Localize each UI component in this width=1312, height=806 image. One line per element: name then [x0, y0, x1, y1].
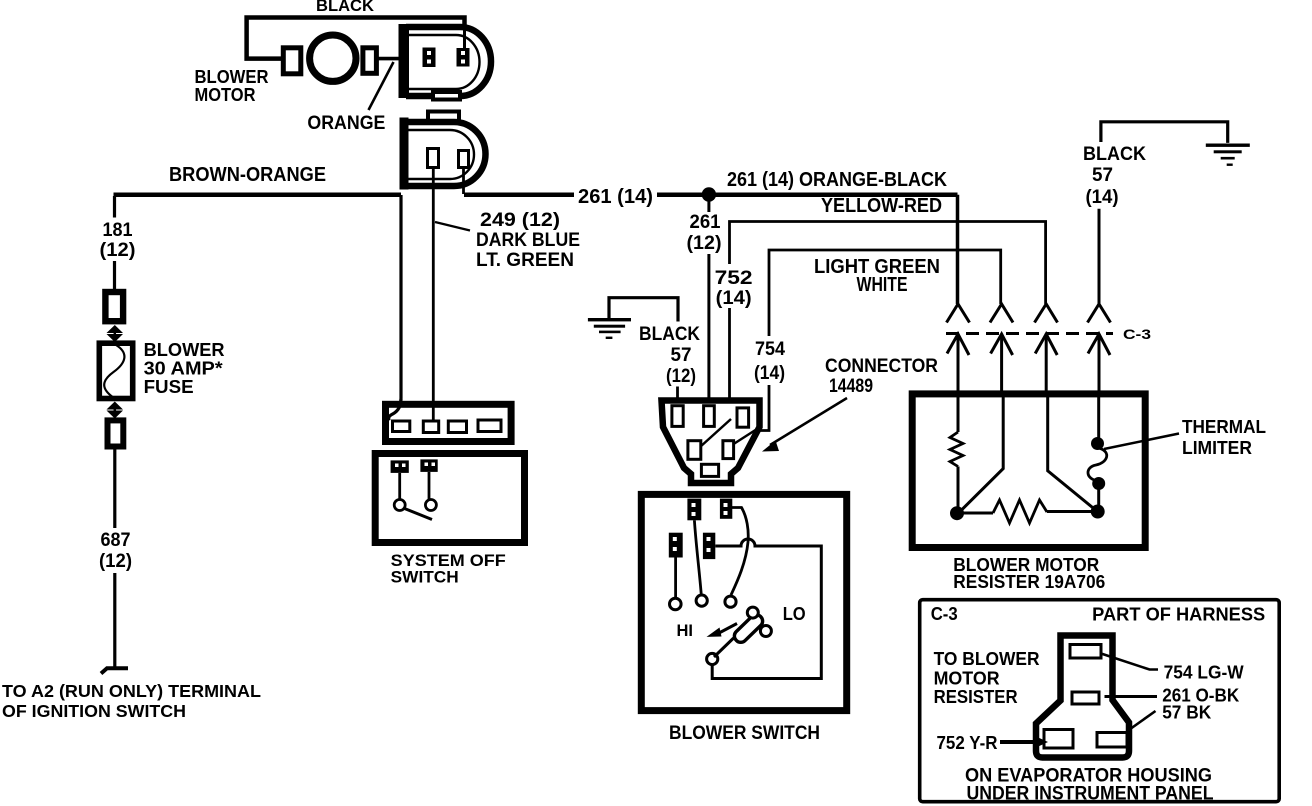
contact circle right [425, 500, 436, 511]
pointer 754 LG-W [1101, 654, 1158, 670]
connector face flask outline [1036, 636, 1129, 758]
C-3 male arrow 3 [1035, 334, 1057, 395]
svg-text:261 (14): 261 (14) [578, 186, 653, 208]
wiper circle top [747, 607, 758, 618]
wire 57 (14) down to C-3 [1098, 209, 1101, 304]
LO contact circle 4 [707, 653, 718, 664]
strip slot 3 [448, 421, 466, 433]
wire 261 main to right [657, 192, 958, 197]
wire orange-black down to C-3 [956, 195, 960, 304]
svg-text:57 BK: 57 BK [1162, 703, 1211, 723]
contact circle left [394, 500, 405, 511]
svg-text:LO: LO [783, 604, 806, 624]
svg-text:BLOWER: BLOWER [144, 340, 225, 360]
wire brown-orange drop to system off switch [389, 195, 401, 421]
svg-text:OF IGNITION SWITCH: OF IGNITION SWITCH [2, 701, 186, 721]
wiper bar [732, 612, 765, 645]
internal wire 14489 a [700, 419, 731, 447]
svg-text:(14): (14) [1086, 187, 1119, 208]
svg-text:THERMAL: THERMAL [1182, 417, 1266, 437]
svg-text:BLACK: BLACK [316, 0, 375, 15]
plug arrow top of fuse [107, 325, 124, 333]
blower switch terminal 1 [687, 499, 701, 521]
svg-text:C-3: C-3 [931, 604, 958, 624]
resistor element horizontal [957, 512, 993, 515]
pointer 752 Y-R arrow [1000, 740, 1038, 744]
wire 687 lower to ignition [113, 573, 116, 668]
svg-text:HI: HI [677, 621, 694, 640]
junction dot left [950, 506, 964, 520]
wire LO loop [712, 539, 821, 679]
svg-text:BLOWER: BLOWER [195, 67, 269, 87]
svg-text:BROWN-ORANGE: BROWN-ORANGE [169, 164, 326, 186]
pin 2 of C1 [457, 48, 470, 67]
wire motor to connector orange [376, 57, 428, 61]
wire t1 to contact 2 [694, 520, 701, 595]
wire thermal limiter leg 4 [1097, 394, 1100, 438]
wire C2 pin2 stub [462, 168, 465, 195]
HI contact circle [670, 598, 682, 610]
wire black 57 (14) to ground [1101, 122, 1228, 143]
svg-text:752: 752 [715, 268, 753, 289]
svg-text:(12): (12) [99, 551, 132, 572]
wire 249 into slot2 [432, 405, 435, 422]
internal wire 14489 b [734, 429, 757, 444]
svg-text:BLACK: BLACK [1083, 144, 1146, 165]
wiper arrow to HI [719, 624, 737, 634]
C-3 male arrow 2 [991, 334, 1013, 395]
svg-text:BLOWER SWITCH: BLOWER SWITCH [669, 723, 820, 744]
wire t1 to contact [398, 473, 401, 500]
C-3 interface female chevron 4 [1088, 304, 1111, 323]
connector C2 [428, 112, 459, 122]
wire 754 into connector [757, 385, 769, 431]
wire resistor leg 3 [1048, 394, 1095, 510]
pointer 261 O-BK [1105, 695, 1158, 698]
svg-text:30 AMP*: 30 AMP* [144, 359, 223, 379]
svg-text:C-3: C-3 [1123, 326, 1151, 342]
svg-text:687: 687 [101, 530, 131, 551]
connector C1 blower motor connector [406, 27, 491, 96]
flask slot top [1070, 645, 1101, 659]
pin 2 of C2 [459, 151, 469, 168]
wire 249 from C2 pin1 down [432, 168, 435, 422]
resistor element vertical [950, 432, 963, 467]
pin 1 of C2 [428, 149, 439, 168]
wire 261 (12) down to connector [707, 254, 710, 407]
wire 752 yellow-red [730, 222, 1046, 305]
svg-text:181: 181 [103, 220, 133, 241]
svg-text:SYSTEM OFF: SYSTEM OFF [391, 552, 506, 570]
inline connector below fuse [108, 420, 124, 446]
14489 pin mid 1 [688, 441, 701, 460]
C-3 male arrow 1 [947, 334, 969, 395]
junction dot right [1091, 505, 1105, 519]
flask slot middle [1072, 692, 1099, 704]
C-3 interface female chevron 1 [947, 304, 970, 323]
wiper circle side [760, 626, 771, 637]
C-3 male arrow 4 [1088, 334, 1110, 395]
svg-text:261: 261 [690, 212, 721, 233]
ground symbol G2 [1206, 144, 1250, 166]
svg-text:FUSE: FUSE [144, 377, 194, 397]
thermal limiter dot bottom [1092, 477, 1105, 490]
wire 261 (12) stub below junction [707, 198, 710, 212]
pointer connector 14489 [770, 398, 847, 445]
flask slot bottom right [1097, 733, 1127, 748]
svg-text:TO A2 (RUN ONLY) TERMINAL: TO A2 (RUN ONLY) TERMINAL [2, 681, 261, 701]
blower motor M1 [310, 35, 356, 81]
svg-text:(12): (12) [666, 366, 696, 387]
svg-text:MOTOR: MOTOR [934, 669, 1000, 689]
switch terminal 1 [391, 460, 409, 473]
C-3 interface female chevron 2 [990, 304, 1013, 323]
pointer 57 BK [1130, 711, 1156, 730]
svg-text:UNDER INSTRUMENT PANEL: UNDER INSTRUMENT PANEL [967, 784, 1214, 805]
pointer 249 [435, 222, 470, 231]
blower switch terminal 4 [703, 533, 715, 559]
blower motor resistor box [912, 394, 1145, 548]
svg-text:RESISTER: RESISTER [934, 687, 1018, 707]
blower switch terminal 2 [720, 499, 732, 519]
wire brown-orange main feed [114, 192, 402, 197]
svg-text:RESISTER 19A706: RESISTER 19A706 [953, 572, 1105, 592]
wire 181 upper [113, 196, 116, 218]
14489 pin top 3 [737, 408, 749, 427]
switch terminal 2 [420, 459, 437, 472]
svg-text:14489: 14489 [829, 376, 873, 397]
svg-text:261 (14) ORANGE-BLACK: 261 (14) ORANGE-BLACK [727, 169, 947, 191]
terminal hook A2 [101, 668, 128, 673]
pin 1 of C1 [423, 48, 436, 68]
strip slot 4 [478, 420, 501, 432]
strip slot 1 [393, 421, 410, 432]
svg-text:(12): (12) [100, 240, 136, 261]
thermal limiter element [1088, 448, 1107, 481]
svg-text:BLACK: BLACK [639, 324, 700, 345]
switch blade [405, 509, 433, 520]
plug arrow bottom of fuse [107, 402, 124, 410]
wire t2 to contact [428, 472, 431, 500]
svg-text:57: 57 [1092, 165, 1113, 186]
fuse F1 BLOWER 30A [99, 343, 132, 398]
svg-text:752 Y-R: 752 Y-R [937, 733, 998, 753]
svg-text:ORANGE: ORANGE [307, 113, 385, 134]
wire resistor leg 1 [957, 394, 960, 432]
blower switch terminal 3 [669, 533, 683, 558]
C1 bottom tab [433, 92, 460, 100]
wire hook into slot1 [389, 399, 401, 421]
contact circle 2 [696, 595, 707, 606]
inline connector above fuse [105, 292, 123, 321]
info box C-3 part of harness [920, 600, 1279, 802]
svg-text:249 (12): 249 (12) [480, 210, 560, 231]
C-3 dashed separation line [946, 332, 1113, 335]
thermal limiter dot top [1091, 437, 1104, 450]
wire 687 upper [113, 450, 116, 529]
14489 pin bottom [701, 464, 718, 476]
wiper arm [714, 638, 734, 657]
strip slot 2 [423, 421, 438, 433]
svg-text:(14): (14) [716, 288, 752, 309]
wire resistor leg 2 [960, 394, 1003, 512]
svg-text:TO BLOWER: TO BLOWER [934, 649, 1040, 669]
svg-text:CONNECTOR: CONNECTOR [825, 356, 938, 377]
svg-text:LIMITER: LIMITER [1182, 438, 1252, 458]
svg-text:WHITE: WHITE [857, 274, 908, 296]
ground bracket black 57 (12) [609, 298, 678, 322]
connector 14489 body [662, 401, 760, 484]
wire black motor loop [247, 18, 465, 59]
ground symbol G1 [588, 318, 631, 339]
blower switch box [641, 494, 846, 710]
svg-text:YELLOW-RED: YELLOW-RED [821, 195, 942, 217]
svg-text:754: 754 [755, 339, 785, 360]
14489 pin top 1 [672, 406, 683, 427]
pointer orange [369, 62, 394, 110]
14489 pin mid 2 [723, 441, 734, 459]
svg-text:(14): (14) [754, 363, 785, 384]
pointer thermal limiter [1104, 434, 1179, 450]
C-3 interface female chevron 3 [1035, 304, 1058, 323]
svg-text:57: 57 [671, 345, 692, 366]
system off switch box [375, 454, 524, 543]
svg-text:LT. GREEN: LT. GREEN [476, 250, 574, 271]
wire 752 into connector [728, 308, 731, 407]
wire t3 to HI contact [674, 558, 677, 599]
flask slot bottom left [1044, 730, 1073, 749]
switch connector strip [386, 404, 512, 441]
wire 57 into connector [676, 387, 679, 408]
svg-text:PART OF HARNESS: PART OF HARNESS [1092, 605, 1265, 625]
svg-text:(12): (12) [687, 233, 722, 254]
svg-text:MOTOR: MOTOR [195, 85, 256, 105]
junction node 261 [702, 187, 716, 201]
14489 pin top 2 [704, 406, 715, 427]
svg-text:754 LG-W: 754 LG-W [1164, 663, 1244, 683]
wire 181 lower [113, 261, 116, 289]
wire 754 light green white [769, 250, 1001, 336]
svg-text:DARK BLUE: DARK BLUE [476, 230, 580, 251]
svg-text:SWITCH: SWITCH [391, 569, 459, 587]
wire t2 to contact 3 [731, 508, 748, 596]
contact circle 3 [725, 596, 736, 607]
